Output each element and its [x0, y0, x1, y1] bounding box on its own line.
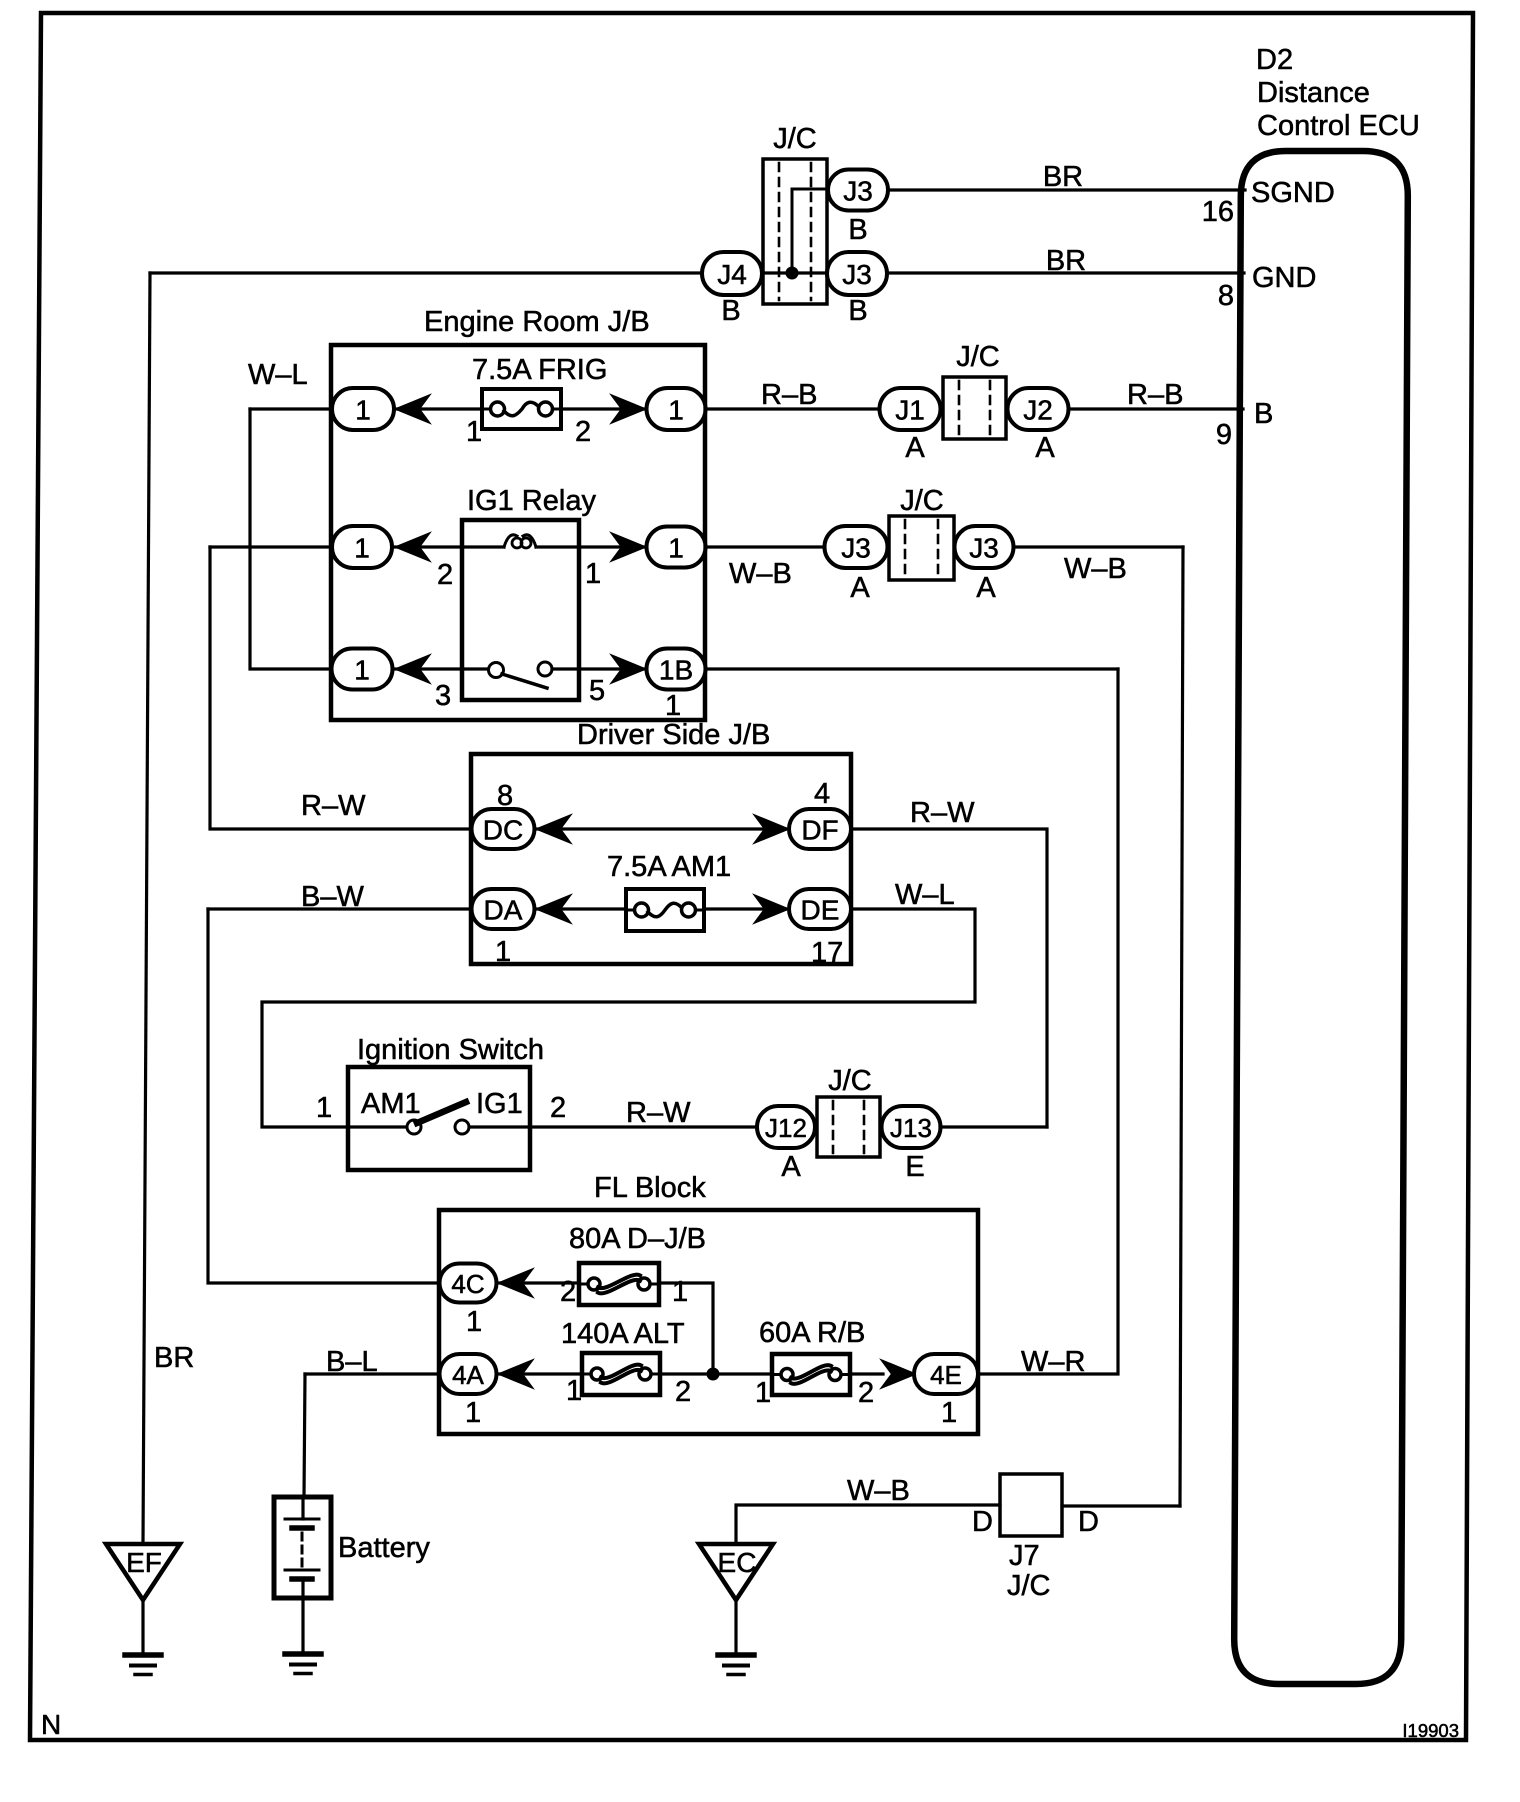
svg-text:J4: J4 — [717, 259, 747, 290]
svg-text:1: 1 — [668, 533, 684, 564]
svg-text:IG1 Relay: IG1 Relay — [467, 485, 596, 517]
svg-text:1: 1 — [466, 416, 482, 448]
svg-text:2: 2 — [560, 1276, 576, 1308]
svg-text:J/C: J/C — [773, 123, 817, 155]
svg-text:J/C: J/C — [956, 341, 1000, 373]
svg-text:80A D–J/B: 80A D–J/B — [569, 1223, 706, 1255]
svg-text:1: 1 — [566, 1375, 582, 1407]
svg-text:1: 1 — [316, 1092, 332, 1124]
svg-text:IG1: IG1 — [476, 1088, 523, 1120]
svg-text:D: D — [972, 1506, 993, 1538]
svg-text:D2: D2 — [1256, 44, 1293, 76]
svg-text:J7: J7 — [1009, 1540, 1040, 1572]
svg-text:DF: DF — [801, 815, 838, 846]
svg-text:1: 1 — [672, 1276, 688, 1308]
svg-text:Distance: Distance — [1257, 77, 1370, 109]
svg-text:2: 2 — [437, 559, 453, 591]
svg-text:A: A — [781, 1151, 801, 1183]
svg-text:7.5A AM1: 7.5A AM1 — [607, 851, 731, 883]
svg-text:D: D — [1078, 1506, 1099, 1538]
svg-text:R–W: R–W — [301, 790, 366, 822]
svg-text:1: 1 — [495, 936, 511, 968]
svg-text:A: A — [1035, 432, 1055, 464]
svg-text:9: 9 — [1216, 419, 1232, 451]
svg-text:2: 2 — [575, 416, 591, 448]
svg-text:SGND: SGND — [1251, 177, 1335, 209]
svg-text:J3: J3 — [843, 176, 873, 207]
svg-text:J3: J3 — [969, 533, 999, 564]
svg-text:FL Block: FL Block — [594, 1172, 706, 1204]
svg-text:DA: DA — [484, 895, 523, 926]
svg-text:2: 2 — [550, 1092, 566, 1124]
svg-text:J3: J3 — [842, 259, 872, 290]
svg-text:J13: J13 — [890, 1113, 932, 1143]
svg-text:B: B — [848, 295, 867, 327]
svg-text:DE: DE — [801, 895, 840, 926]
svg-text:2: 2 — [675, 1376, 691, 1408]
svg-text:B–W: B–W — [301, 881, 364, 913]
svg-text:8: 8 — [497, 780, 513, 812]
svg-text:R–W: R–W — [910, 797, 975, 829]
svg-text:7.5A FRIG: 7.5A FRIG — [472, 354, 607, 386]
svg-text:GND: GND — [1252, 262, 1316, 294]
svg-text:J/C: J/C — [828, 1065, 872, 1097]
svg-text:R–W: R–W — [626, 1097, 691, 1129]
svg-text:2: 2 — [858, 1377, 874, 1409]
svg-text:J12: J12 — [765, 1113, 807, 1143]
svg-text:Engine Room J/B: Engine Room J/B — [424, 306, 650, 338]
svg-text:W–L: W–L — [248, 359, 308, 391]
svg-text:N: N — [41, 1709, 61, 1740]
svg-text:W–R: W–R — [1021, 1346, 1085, 1378]
svg-text:3: 3 — [435, 680, 451, 712]
svg-text:EC: EC — [718, 1547, 757, 1578]
svg-text:B–L: B–L — [326, 1346, 378, 1378]
svg-text:BR: BR — [1046, 245, 1086, 277]
svg-text:1: 1 — [585, 558, 601, 590]
svg-text:W–B: W–B — [729, 558, 792, 590]
svg-text:J/C: J/C — [1007, 1570, 1051, 1602]
svg-text:A: A — [905, 432, 925, 464]
svg-text:140A ALT: 140A ALT — [561, 1318, 685, 1350]
svg-text:W–L: W–L — [895, 879, 955, 911]
svg-text:4A: 4A — [452, 1360, 484, 1390]
svg-text:1: 1 — [465, 1397, 481, 1429]
svg-text:A: A — [976, 572, 996, 604]
svg-text:1: 1 — [354, 533, 370, 564]
svg-text:4: 4 — [814, 778, 830, 810]
svg-text:DC: DC — [483, 815, 523, 846]
svg-text:J3: J3 — [841, 533, 871, 564]
svg-text:J/C: J/C — [900, 485, 944, 517]
svg-text:R–B: R–B — [1127, 379, 1183, 411]
svg-text:I19903: I19903 — [1402, 1720, 1459, 1741]
svg-text:1B: 1B — [659, 655, 693, 686]
svg-text:W–B: W–B — [847, 1475, 910, 1507]
svg-text:1: 1 — [755, 1377, 771, 1409]
svg-text:AM1: AM1 — [361, 1088, 421, 1120]
svg-text:1: 1 — [668, 395, 684, 426]
svg-text:4E: 4E — [930, 1360, 962, 1390]
svg-text:5: 5 — [589, 675, 605, 707]
svg-text:E: E — [905, 1151, 924, 1183]
svg-text:1: 1 — [941, 1397, 957, 1429]
svg-text:17: 17 — [811, 937, 843, 969]
svg-text:BR: BR — [1043, 161, 1083, 193]
svg-text:1: 1 — [466, 1306, 482, 1338]
svg-text:A: A — [850, 572, 870, 604]
svg-text:BR: BR — [154, 1342, 194, 1374]
svg-text:W–B: W–B — [1064, 553, 1127, 585]
svg-text:B: B — [848, 214, 867, 246]
svg-text:1: 1 — [355, 395, 371, 426]
svg-text:R–B: R–B — [761, 379, 817, 411]
svg-text:J2: J2 — [1023, 395, 1053, 426]
svg-text:Control ECU: Control ECU — [1257, 110, 1420, 142]
svg-text:60A R/B: 60A R/B — [759, 1317, 865, 1349]
svg-text:8: 8 — [1218, 280, 1234, 312]
svg-text:1: 1 — [665, 690, 681, 722]
svg-text:4C: 4C — [451, 1269, 484, 1299]
svg-text:EF: EF — [126, 1547, 162, 1578]
svg-text:Driver Side J/B: Driver Side J/B — [577, 719, 770, 751]
svg-text:Ignition Switch: Ignition Switch — [357, 1034, 544, 1066]
svg-text:B: B — [721, 295, 740, 327]
svg-text:Battery: Battery — [338, 1532, 430, 1564]
svg-text:16: 16 — [1202, 196, 1234, 228]
svg-text:B: B — [1254, 398, 1273, 430]
svg-text:1: 1 — [354, 655, 370, 686]
svg-text:J1: J1 — [895, 395, 925, 426]
